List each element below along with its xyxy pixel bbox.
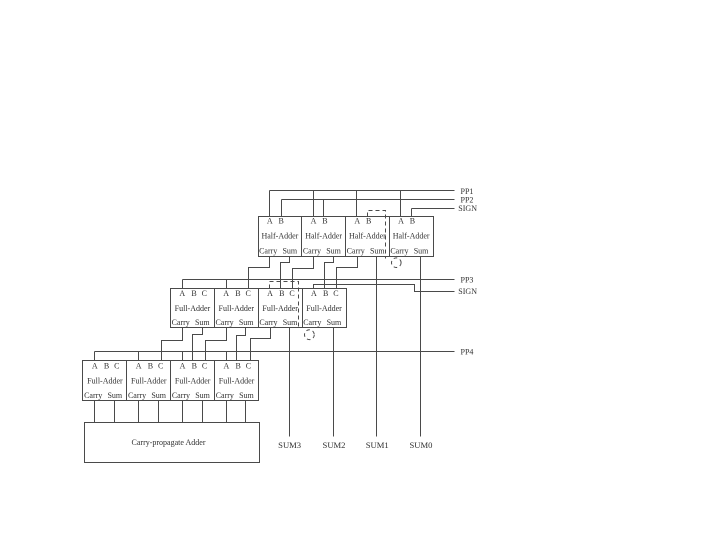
svg-text:B: B	[192, 362, 197, 371]
svg-text:Carry: Carry	[303, 318, 321, 327]
svg-text:Sum: Sum	[370, 246, 385, 255]
cell divider U6/U7	[258, 289, 260, 328]
wire PP4 to U9 pin A	[94, 352, 96, 361]
svg-text:Full-Adder: Full-Adder	[175, 376, 211, 385]
cell divider U7/U8	[302, 289, 304, 328]
row outline full	[83, 361, 259, 401]
svg-text:Carry: Carry	[128, 391, 146, 400]
wire U4 Sum to SUM0	[420, 257, 422, 437]
svg-text:B: B	[104, 362, 109, 371]
svg-text:A: A	[311, 217, 317, 226]
svg-text:Sum: Sum	[195, 318, 210, 327]
svg-text:Sum: Sum	[239, 318, 254, 327]
wire U11 Carry to U13	[182, 401, 184, 423]
svg-text:SUM2: SUM2	[323, 440, 346, 450]
carry-propagate adder U13	[85, 423, 260, 463]
svg-text:Sum: Sum	[195, 391, 210, 400]
svg-text:Full-Adder: Full-Adder	[306, 304, 342, 313]
svg-text:B: B	[235, 362, 240, 371]
wire U12 Carry to U13	[226, 401, 228, 423]
svg-text:C: C	[289, 289, 294, 298]
wire PP3 to U5 pin A	[182, 280, 184, 289]
svg-text:B: B	[322, 217, 327, 226]
svg-text:Carry: Carry	[303, 246, 321, 255]
svg-text:Sum: Sum	[414, 246, 429, 255]
row outline half	[259, 217, 434, 257]
svg-text:SIGN: SIGN	[458, 287, 477, 296]
svg-text:A: A	[311, 289, 317, 298]
svg-text:Half-Adder: Half-Adder	[349, 231, 386, 240]
svg-text:Sum: Sum	[239, 391, 254, 400]
row outline full	[171, 289, 347, 328]
wire U1 Sum to U7 pin B	[281, 257, 290, 289]
svg-text:B: B	[235, 289, 240, 298]
svg-text:Full-Adder: Full-Adder	[219, 304, 255, 313]
svg-text:PP1: PP1	[461, 187, 474, 196]
svg-text:Carry: Carry	[84, 391, 102, 400]
svg-text:A: A	[398, 217, 404, 226]
svg-text:B: B	[323, 289, 328, 298]
svg-text:Sum: Sum	[151, 391, 166, 400]
svg-text:A: A	[179, 289, 185, 298]
svg-text:Carry: Carry	[259, 318, 277, 327]
cell divider U3/U4	[389, 217, 391, 257]
wire PP4 to U11 pin A	[182, 352, 184, 361]
net PP4 bus line	[95, 351, 455, 353]
wire U5 Sum to U11 pin B	[193, 328, 203, 361]
wire U7 Carry to U12 pin C	[251, 328, 271, 361]
net PP1 bus line	[270, 190, 455, 192]
svg-text:PP3: PP3	[461, 275, 474, 284]
wire PP1 to U2 pin A	[313, 191, 315, 217]
wire PP4 to U12 pin A	[226, 352, 228, 361]
svg-text:Sum: Sum	[282, 246, 297, 255]
svg-text:A: A	[354, 217, 360, 226]
wire U11 Sum to U13	[202, 401, 204, 423]
svg-text:Half-Adder: Half-Adder	[261, 231, 298, 240]
svg-text:SUM1: SUM1	[366, 440, 389, 450]
svg-text:B: B	[191, 289, 196, 298]
wire U10 Carry to U13	[138, 401, 140, 423]
svg-text:Carry: Carry	[390, 246, 408, 255]
svg-text:A: A	[136, 362, 142, 371]
net SIGN (row 1) line	[412, 208, 455, 210]
svg-text:PP4: PP4	[461, 348, 474, 357]
svg-text:Sum: Sum	[283, 318, 298, 327]
svg-text:SUM0: SUM0	[409, 440, 432, 450]
wire U12 Sum to U13	[245, 401, 247, 423]
svg-text:C: C	[114, 362, 119, 371]
wire SIGN to U4 pin B	[411, 209, 413, 217]
wire U1 Carry to U6 pin C	[249, 257, 270, 289]
svg-text:C: C	[202, 289, 207, 298]
wire U9 Carry to U13	[94, 401, 96, 423]
wire U3 Sum to SUM1	[376, 257, 378, 437]
svg-text:B: B	[279, 289, 284, 298]
svg-text:B: B	[148, 362, 153, 371]
net SIGN (row 2) line and wire to U8 pin A	[314, 285, 455, 292]
wire U5 Carry to U10 pin C	[162, 328, 183, 361]
dashed highlight around U3 pin B	[368, 211, 386, 259]
svg-text:Carry: Carry	[259, 246, 277, 255]
svg-text:C: C	[158, 362, 163, 371]
svg-text:Carry-propagate Adder: Carry-propagate Adder	[132, 438, 206, 447]
net PP2 bus line	[282, 199, 455, 201]
cell divider U2/U3	[345, 217, 347, 257]
svg-text:Full-Adder: Full-Adder	[219, 376, 255, 385]
cell divider U10/U11	[170, 361, 172, 401]
svg-text:Full-Adder: Full-Adder	[131, 376, 167, 385]
svg-text:Sum: Sum	[326, 246, 341, 255]
svg-text:SUM3: SUM3	[278, 440, 301, 450]
dashed highlight circle at U8 carry output	[305, 330, 315, 340]
svg-text:B: B	[410, 217, 415, 226]
wire PP2 to U1 pin B	[281, 200, 283, 217]
wire PP2 to U2 pin B	[323, 200, 325, 217]
svg-text:Carry: Carry	[215, 318, 233, 327]
wire U6 Carry to U11 pin C	[206, 328, 227, 361]
wire PP1 to U1 pin A	[269, 191, 271, 217]
svg-text:A: A	[92, 362, 98, 371]
net PP3 bus line	[183, 279, 455, 281]
svg-text:A: A	[224, 362, 230, 371]
svg-text:Carry: Carry	[347, 246, 365, 255]
wire PP1 to U4 pin A	[400, 191, 402, 217]
cell divider U11/U12	[214, 361, 216, 401]
svg-text:Sum: Sum	[107, 391, 122, 400]
svg-text:A: A	[267, 289, 273, 298]
svg-text:A: A	[223, 289, 229, 298]
wire PP3 to U6 pin A	[226, 280, 228, 289]
wire U7 Sum to SUM3	[289, 328, 291, 437]
wire PP4 to U10 pin A	[138, 352, 140, 361]
cell divider U5/U6	[214, 289, 216, 328]
svg-text:C: C	[246, 289, 251, 298]
wire U3 Carry to U8 pin C	[337, 257, 358, 289]
cell divider U1/U2	[301, 217, 303, 257]
wire U8 Sum to SUM2	[333, 328, 335, 437]
wire PP1 to U3 pin A	[356, 191, 358, 217]
svg-text:Full-Adder: Full-Adder	[175, 304, 211, 313]
wire U2 Carry to U7 pin C	[293, 257, 314, 289]
svg-text:Carry: Carry	[172, 391, 190, 400]
svg-text:C: C	[246, 362, 251, 371]
dashed highlight circle at U4 carry output	[392, 258, 402, 268]
wire U2 Sum to U8 pin B	[325, 257, 334, 289]
svg-text:Half-Adder: Half-Adder	[305, 231, 342, 240]
svg-text:Full-Adder: Full-Adder	[87, 376, 123, 385]
dashed highlight around U7 pin A	[270, 282, 299, 330]
svg-text:Carry: Carry	[172, 318, 190, 327]
svg-text:SIGN: SIGN	[458, 204, 477, 213]
wire U6 Sum to U12 pin B	[237, 328, 246, 361]
svg-text:C: C	[202, 362, 207, 371]
svg-text:A: A	[180, 362, 186, 371]
svg-text:C: C	[333, 289, 338, 298]
wire U9 Sum to U13	[114, 401, 116, 423]
svg-text:Half-Adder: Half-Adder	[393, 231, 430, 240]
wire U10 Sum to U13	[158, 401, 160, 423]
svg-text:Full-Adder: Full-Adder	[262, 304, 298, 313]
cell divider U9/U10	[126, 361, 128, 401]
svg-text:Sum: Sum	[327, 318, 342, 327]
svg-text:B: B	[366, 217, 371, 226]
svg-text:Carry: Carry	[216, 391, 234, 400]
svg-text:B: B	[279, 217, 284, 226]
svg-text:A: A	[267, 217, 273, 226]
